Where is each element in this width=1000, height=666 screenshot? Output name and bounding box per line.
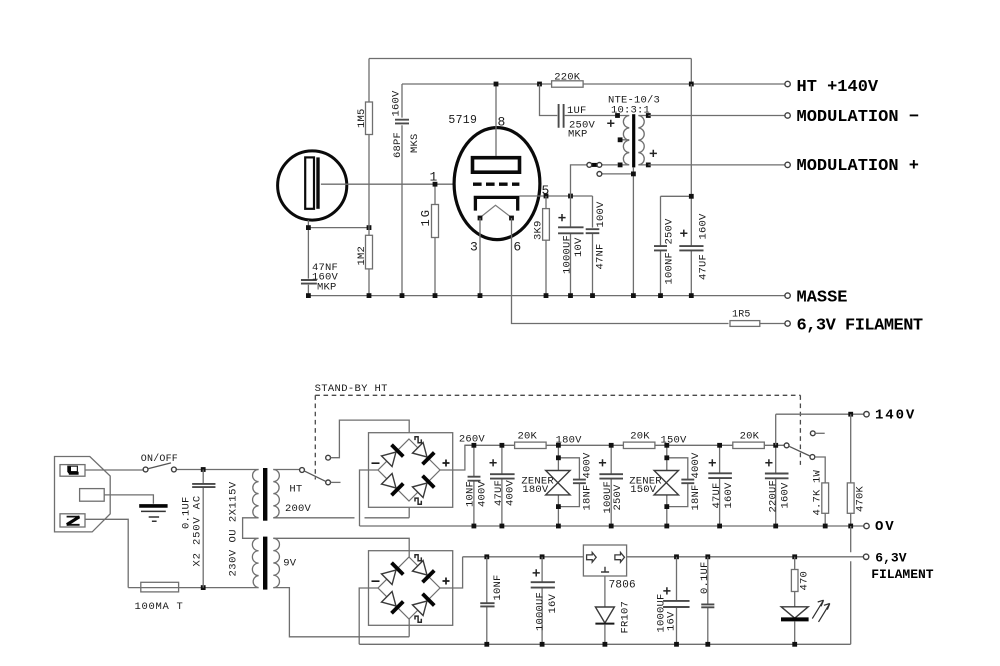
svg-text:200V: 200V: [285, 503, 312, 515]
wire pin 5 rail: [519, 196, 592, 296]
svg-text:MKP: MKP: [568, 128, 588, 140]
capacitor 10NF (9V): [486, 557, 488, 645]
svg-text:FILAMENT: FILAMENT: [871, 567, 934, 582]
plug phase glyph: [68, 466, 78, 471]
junction masse pin3: [478, 293, 483, 298]
junction masse 1000UF: [568, 293, 573, 298]
svg-text:6,3V FILAMENT: 6,3V FILAMENT: [797, 317, 923, 336]
svg-text:7806: 7806: [609, 579, 636, 591]
junction masse 100NF: [658, 293, 663, 298]
junction 1000UF1: [540, 554, 545, 559]
svg-text:STAND-BY HT: STAND-BY HT: [315, 383, 388, 395]
svg-text:1M2: 1M2: [356, 246, 368, 266]
junction X2 top: [201, 467, 206, 472]
svg-text:20K: 20K: [518, 430, 538, 442]
transformer T2 HT secondary: [273, 470, 279, 518]
capacitor 220UF 160V: [775, 445, 777, 526]
svg-text:3: 3: [470, 239, 478, 254]
wire 3K9 drop: [545, 196, 547, 296]
svg-text:18NF: 18NF: [690, 484, 702, 510]
wire phase wire: [85, 469, 259, 472]
capacitor 10NF 400V: [473, 445, 475, 526]
resistor R 470: [791, 570, 798, 592]
wire MASSE rail: [308, 295, 785, 297]
svg-text:400V: 400V: [690, 452, 702, 479]
resistor 470 + LED D1: [794, 557, 796, 607]
junction masse 1M2: [367, 293, 372, 298]
resistor R 470K: [847, 483, 854, 513]
resistor R 1M5: [366, 102, 373, 135]
capacitor 10NF 400V: [468, 477, 481, 481]
svg-text:16V: 16V: [547, 593, 559, 613]
svg-text:ON/OFF: ON/OFF: [141, 453, 178, 465]
junction: [664, 455, 669, 460]
capacitor 18NF: [573, 480, 586, 484]
terminal 0V: [864, 523, 869, 528]
earth wire and ground: [104, 495, 153, 504]
plus polarity 220UF: [765, 459, 772, 466]
wire 0V rail: [360, 525, 864, 527]
svg-text:100V: 100V: [595, 201, 607, 228]
wire HT rail (y=84): [402, 59, 785, 85]
wire pin 6 / 6.3V filament line: [512, 218, 786, 324]
svg-text:MODULATION +: MODULATION +: [797, 157, 919, 176]
switch stand-by (right): [784, 443, 789, 448]
capacitor 47UF 160V: [679, 246, 703, 250]
capacitor 220UF 160V: [765, 474, 789, 479]
svg-text:18NF: 18NF: [582, 484, 594, 510]
resistor R 1G: [432, 205, 439, 238]
dashed stand-by line: [315, 395, 800, 479]
wire FR107 down: [604, 625, 606, 645]
wire B2 minus to bottom rail: [359, 588, 378, 644]
svg-text:250V: 250V: [664, 218, 676, 245]
tube heater: [480, 205, 512, 217]
svg-text:140V: 140V: [875, 408, 916, 424]
plus polarity secondary: [650, 150, 657, 157]
capacitor 47UF 400V: [501, 445, 503, 526]
svg-text:47UF: 47UF: [711, 482, 723, 508]
wire stand-by feed to bridge: [331, 420, 410, 458]
svg-text:100MA T: 100MA T: [135, 601, 184, 613]
junction 140V tap: [773, 443, 778, 448]
capacitor 0.1UF 2: [701, 604, 714, 607]
svg-text:180V: 180V: [556, 434, 583, 446]
junction: [556, 504, 561, 509]
svg-text:10NF: 10NF: [465, 481, 477, 507]
wire mic junction row: [308, 227, 369, 229]
svg-text:16V: 16V: [666, 611, 678, 631]
capacitor 1000UF 16V (2): [676, 557, 678, 645]
svg-text:X2 250V AC: X2 250V AC: [192, 495, 204, 567]
junction 10NF2: [484, 554, 489, 559]
resistor R 1R5: [730, 321, 760, 327]
transformer T1 core: [632, 114, 635, 167]
svg-text:150V: 150V: [661, 434, 688, 446]
microphone M1: [278, 151, 347, 220]
svg-text:250V: 250V: [612, 484, 624, 511]
wire HT secondary bottom to bridge: [273, 502, 409, 518]
svg-text:220UF: 220UF: [768, 480, 780, 513]
capacitor 1000UF 10V: [558, 227, 584, 233]
LED D1: [781, 607, 808, 618]
tube grid (dashed): [473, 182, 519, 185]
wire nc stub: [815, 432, 825, 434]
svg-text:160V: 160V: [391, 90, 403, 117]
resistor R 20K (1): [515, 442, 547, 448]
svg-text:470K: 470K: [855, 485, 867, 512]
junction node 1: [433, 182, 438, 187]
svg-text:1R5: 1R5: [732, 310, 751, 321]
junction mic stem: [306, 225, 311, 230]
junction 260V: [472, 443, 477, 448]
neutral wire: [85, 519, 259, 587]
capacitor 0.1UF 250V AC X2: [202, 470, 204, 588]
capacitor 1000UF 16V 2: [663, 601, 690, 607]
svg-text:FR107: FR107: [620, 601, 632, 634]
wire 0V to bottom rail (with hop): [850, 526, 852, 644]
terminal 6,3V FILAMENT (bottom): [863, 554, 868, 559]
diode FR107: [604, 576, 606, 607]
wire HT secondary to switch: [273, 469, 299, 471]
svg-text:160V: 160V: [698, 213, 710, 240]
tube V1 5719 envelope: [454, 128, 540, 240]
junction 470K top: [848, 412, 853, 417]
wire HT bypass vertical: [690, 84, 692, 296]
plus polarity 47UF: [680, 230, 687, 237]
svg-text:220K: 220K: [554, 72, 581, 84]
wire 140V line: [776, 414, 864, 445]
junction LED branch: [792, 554, 797, 559]
svg-text:0.1UF: 0.1UF: [699, 561, 711, 594]
tube anode plate: [473, 158, 520, 173]
svg-text:4.7K 1W: 4.7K 1W: [812, 469, 824, 515]
capacitor 18NF 400V (150V): [667, 458, 688, 507]
svg-text:8: 8: [498, 114, 506, 129]
junction 180V node: [609, 443, 614, 448]
wire 260V rail: [465, 444, 784, 446]
svg-text:100NF: 100NF: [664, 252, 676, 285]
resistor R 1M2: [366, 235, 373, 269]
junction X2 bottom: [201, 585, 206, 590]
junction masse 3K9: [544, 293, 549, 298]
svg-text:1: 1: [430, 170, 438, 185]
capacitor 47NF MKP: [301, 280, 317, 284]
svg-text:47UF: 47UF: [493, 480, 505, 506]
resistor R 20K (2): [623, 442, 655, 448]
plus polarity 100UF: [599, 459, 606, 466]
wire mic output to grid (node 1): [321, 183, 456, 185]
junction divider tap: [367, 225, 372, 230]
junction 0.1UF2: [705, 554, 710, 559]
resistor R 20K (3): [733, 442, 765, 448]
svg-text:HT +140V: HT +140V: [797, 78, 879, 97]
svg-text:HT: HT: [289, 483, 302, 495]
capacitor 10NF 9V: [480, 603, 494, 606]
svg-text:160V: 160V: [780, 482, 792, 509]
resistor R 3K9: [543, 209, 550, 241]
tube cathode: [474, 197, 520, 210]
svg-text:10NF: 10NF: [492, 574, 504, 600]
plug neutral glyph: [67, 517, 80, 525]
plus polarity 47UF160: [709, 459, 716, 466]
plus polarity primary: [607, 120, 614, 127]
terminal MODULATION -: [785, 113, 790, 118]
capacitor 1000UF 16V 1: [531, 582, 555, 587]
junction HT corner: [689, 82, 694, 87]
wire 1M5/1M2 vertical: [368, 59, 370, 296]
wire 1000UF drop: [570, 196, 572, 296]
wire 68PF branch vertical: [401, 84, 403, 296]
regulator U1 7806: [583, 545, 626, 576]
junction 1000UF2: [674, 554, 679, 559]
wire 9V bottom to bridge B2: [273, 588, 409, 637]
capacitor 18NF: [681, 480, 694, 484]
svg-text:180V: 180V: [522, 484, 549, 496]
terminal HT +140V: [785, 81, 790, 86]
junction masse 1G: [433, 293, 438, 298]
resistor 4.7K 1W: [815, 457, 825, 526]
svg-text:1000UF: 1000UF: [562, 235, 574, 274]
wire 9V top to bridge B2: [273, 538, 409, 557]
plus polarity 1000UF: [558, 214, 565, 221]
svg-text:470: 470: [799, 571, 811, 591]
junction node 5: [544, 194, 549, 199]
svg-text:6: 6: [513, 239, 521, 254]
wire standby stub: [331, 481, 341, 483]
svg-text:1UF: 1UF: [567, 105, 587, 117]
junction 150V rail: [664, 443, 669, 448]
transformer T2 cores: [263, 468, 267, 521]
svg-text:400V: 400V: [476, 480, 488, 507]
zener diode ZENER 150V: [666, 445, 668, 526]
wire LED down: [794, 621, 796, 644]
mains plug J1: [55, 457, 111, 532]
svg-text:1M5: 1M5: [356, 108, 368, 128]
bridge rectifier B2: [369, 551, 453, 626]
wire B1 plus to 260V: [440, 445, 472, 470]
plus polarity 47UF400: [490, 459, 497, 466]
junction masse 68PF: [400, 293, 405, 298]
svg-text:20K: 20K: [740, 430, 760, 442]
terminal MASSE: [785, 293, 790, 298]
terminal 140V: [864, 412, 869, 417]
capacitor 0.1UF (2): [707, 557, 709, 645]
wire 100NF branch: [661, 196, 692, 295]
fuse 100MA T: [141, 582, 179, 592]
wire B1 minus to 0V rail: [360, 470, 379, 526]
svg-text:10:3:1: 10:3:1: [611, 105, 650, 117]
capacitor 47UF 160V b: [708, 473, 732, 478]
junction 180V rail: [556, 443, 561, 448]
svg-text:3K9: 3K9: [533, 220, 545, 240]
svg-text:20K: 20K: [630, 430, 650, 442]
svg-text:160V: 160V: [723, 482, 735, 509]
wire transformer center drop: [632, 167, 634, 295]
capacitor 100UF 250V: [610, 445, 612, 526]
wire jumper wires: [571, 165, 634, 196]
svg-text:47NF: 47NF: [595, 243, 607, 269]
wire top loop: [369, 58, 691, 60]
junction jumper tap: [631, 172, 636, 177]
ground symbol: [139, 504, 167, 508]
wire pin 8 (anode): [495, 84, 497, 156]
transformer T2 9V secondary: [273, 538, 279, 587]
capacitor 47NF 100V: [586, 229, 600, 233]
capacitor 18NF 400V (180V): [558, 458, 579, 507]
svg-text:6,3V: 6,3V: [875, 551, 906, 566]
svg-text:MKS: MKS: [409, 133, 421, 153]
svg-text:150V: 150V: [630, 484, 657, 496]
junction bypass join: [689, 194, 694, 199]
junction masse 47UF: [689, 293, 694, 298]
svg-text:10V: 10V: [573, 237, 585, 257]
wire MODULATION - line: [648, 115, 785, 117]
svg-text:1G: 1G: [419, 208, 433, 226]
junction 220K left: [537, 82, 542, 87]
junction pin8/HT: [494, 82, 499, 87]
svg-text:MASSE: MASSE: [797, 289, 848, 308]
svg-text:MODULATION −: MODULATION −: [797, 108, 919, 127]
wire 6.3V DC line: [463, 556, 864, 558]
svg-text:400V: 400V: [505, 479, 517, 506]
zener diode ZENER 180V: [557, 445, 559, 526]
switch stand-by (left): [300, 468, 305, 473]
svg-text:MKP: MKP: [317, 281, 337, 293]
svg-text:47UF: 47UF: [698, 254, 710, 280]
terminal 6.3V FILAMENT (top): [785, 321, 790, 326]
svg-text:230V OU 2X115V: 230V OU 2X115V: [228, 481, 240, 576]
LED arrows: [812, 600, 830, 622]
wire 1UF branch: [540, 84, 618, 116]
capacitor 47UF 400V: [490, 474, 515, 478]
bridge rectifier B1: [369, 433, 453, 508]
terminal MODULATION +: [785, 162, 790, 167]
junction 150V node: [717, 443, 722, 448]
wire B2 plus to 6.3V line: [440, 557, 463, 588]
svg-text:400V: 400V: [582, 452, 594, 479]
svg-text:260V: 260V: [459, 433, 486, 445]
capacitor X2: [192, 484, 215, 487]
capacitor 100NF 250V: [654, 246, 667, 250]
plus polarity 1000UF2: [663, 587, 670, 594]
resistor 470K: [850, 414, 852, 526]
capacitor 100UF 250V: [599, 474, 623, 478]
wire bottom filament rail: [359, 643, 851, 645]
wire secondary winding: [638, 116, 648, 165]
junction: [664, 504, 669, 509]
junction: [500, 443, 505, 448]
junction 1000UF top: [568, 194, 573, 199]
capacitor 68PF MKS: [395, 120, 409, 124]
wire MODULATION + line: [648, 164, 785, 166]
plus polarity 1000UF1: [533, 569, 540, 576]
transformer T2 primary: [243, 470, 259, 588]
wire primary winding: [618, 116, 630, 165]
svg-text:1000UF: 1000UF: [535, 592, 547, 631]
resistor R 4.7K 1W: [822, 483, 829, 513]
svg-text:5719: 5719: [448, 114, 477, 127]
capacitor 1000UF 16V (1): [541, 557, 543, 645]
svg-text:5: 5: [542, 183, 550, 198]
svg-text:9V: 9V: [283, 557, 297, 569]
junction masse 47NF: [306, 293, 311, 298]
capacitor 47UF 160V (bottom): [719, 445, 721, 526]
junction: [556, 455, 561, 460]
resistor R 220K: [552, 81, 584, 87]
svg-text:68PF: 68PF: [392, 132, 404, 158]
wire mic stem down: [307, 220, 309, 296]
junction masse center: [631, 293, 636, 298]
svg-text:OV: OV: [875, 519, 896, 535]
junction masse 47NF100V: [590, 293, 595, 298]
wire 1G drop: [434, 184, 436, 295]
wire pin 3: [479, 218, 481, 296]
